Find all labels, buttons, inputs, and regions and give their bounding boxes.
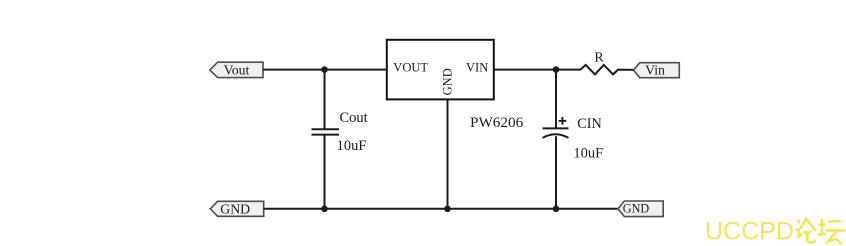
svg-text:UCCPD: UCCPD (705, 218, 794, 246)
watermark UCCPD forum (705, 218, 845, 246)
svg-text:CIN: CIN (577, 116, 601, 132)
port GND left (210, 201, 263, 216)
wire U1 VIN pin to node (494, 69, 556, 71)
svg-text:Vout: Vout (224, 63, 250, 78)
plus polarity mark (559, 117, 567, 125)
hanzi lun (795, 219, 815, 243)
wire U1 GND pin to rail (447, 99, 449, 208)
svg-text:10uF: 10uF (573, 146, 603, 162)
wire ground rail (264, 208, 618, 210)
node junction top-left (321, 66, 328, 73)
port GND right (618, 201, 663, 217)
svg-text:GND: GND (220, 201, 250, 216)
wire CIN lower (555, 136, 557, 209)
capacitor Cout (312, 129, 340, 134)
svg-text:VIN: VIN (466, 61, 488, 75)
wire CIN upper (555, 70, 557, 129)
node junction bottom-middle (444, 206, 451, 213)
wire Vout to U1 VOUT pin (263, 69, 387, 71)
port Vout (210, 62, 263, 77)
resistor R (556, 65, 634, 75)
node junction bottom-right (553, 206, 560, 213)
svg-text:Cout: Cout (340, 110, 368, 126)
op-amp U1 PW6206 body (387, 40, 494, 100)
node junction top-right (553, 66, 560, 73)
wire Cout upper (324, 70, 326, 130)
wire Cout lower (324, 135, 326, 209)
svg-text:PW6206: PW6206 (470, 114, 524, 131)
svg-text:VOUT: VOUT (393, 61, 428, 75)
node junction bottom-left (321, 206, 328, 213)
svg-text:GND: GND (623, 201, 650, 215)
capacitor CIN (polarized) (543, 128, 569, 138)
svg-text:R: R (594, 51, 604, 66)
svg-text:GND: GND (440, 68, 454, 95)
svg-text:10uF: 10uF (337, 138, 367, 154)
hanzi tan (818, 219, 845, 244)
port Vin (634, 63, 680, 78)
svg-text:Vin: Vin (645, 63, 665, 78)
